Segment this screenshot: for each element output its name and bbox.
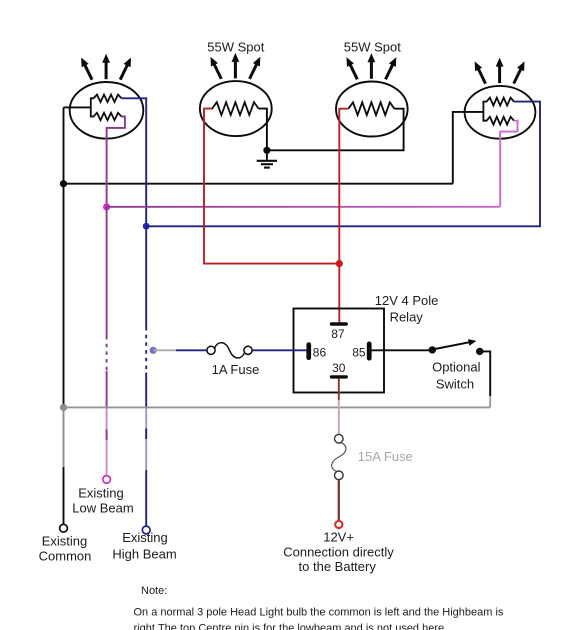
wire H2 low beam step (violet) — [500, 121, 517, 207]
svg-text:86: 86 — [313, 345, 327, 359]
svg-text:30: 30 — [332, 361, 346, 375]
svg-text:Switch: Switch — [436, 376, 474, 391]
wire existing common lower segment — [63, 467, 65, 524]
wire existing high beam dashed segment — [145, 327, 147, 373]
wire existing high beam faded segment — [145, 407, 147, 470]
svg-text:Existing: Existing — [122, 530, 168, 545]
wire tap lead gray — [153, 349, 176, 351]
lamp H1 existing headlight left (dual filament bulb) — [70, 82, 144, 139]
terminal 12V+ battery — [335, 521, 342, 528]
wire pin 30 to fuse F2 faded — [338, 400, 340, 434]
node ground junction (266.9,150.3) — [263, 147, 270, 154]
terminal existing high beam — [142, 526, 150, 534]
relay pin 30 blade — [330, 375, 348, 378]
wire existing low beam dashed segment — [106, 336, 108, 371]
wire existing high beam dash mark — [145, 429, 147, 440]
node high beam tap (153.2,350.3) — [150, 347, 157, 354]
lamp S1 55W spot left — [200, 81, 272, 136]
node red feed junction (339.3,263.6) — [336, 260, 343, 267]
node ground tap gray (63.5,407.4) — [60, 404, 67, 411]
switch SW1 left contact — [429, 346, 436, 353]
wire H1 low beam step (magenta) — [107, 117, 125, 207]
svg-text:1A Fuse: 1A Fuse — [212, 362, 260, 377]
wire tap to fuse F1 (navy) — [176, 349, 207, 351]
wire S1 right lead — [259, 109, 267, 151]
filament H2 low beam (bottom resistor) — [483, 117, 514, 125]
lamp H1 common bracket — [90, 97, 92, 117]
wire existing high beam lower segment — [145, 470, 147, 526]
svg-text:87: 87 — [331, 327, 345, 341]
filament S1 — [206, 102, 259, 115]
wire red feed to relay pin 87 — [338, 264, 340, 323]
switch SW1 right contact — [476, 348, 483, 355]
svg-text:55W Spot: 55W Spot — [207, 40, 264, 55]
wire common bus horizontal y=183.7 — [64, 183, 453, 185]
wire existing high beam solid above gray bus — [145, 373, 147, 408]
wire switch to ground bus corner — [480, 351, 491, 396]
filament H1 low beam (bottom resistor) — [91, 113, 122, 120]
svg-text:Existing: Existing — [42, 534, 88, 549]
filament H2 high beam (top resistor) — [483, 98, 514, 106]
svg-text:On a normal 3 pole Head Light: On a normal 3 pole Head Light bulb the c… — [134, 607, 504, 619]
wire H2 common lead down (x=452.8) — [453, 112, 484, 184]
svg-text:Existing: Existing — [78, 486, 124, 501]
wire H1 high beam lead (navy) — [122, 98, 147, 226]
lamp H2 common bracket — [482, 101, 484, 122]
svg-text:to the Battery: to the Battery — [299, 559, 377, 574]
svg-text:Relay: Relay — [390, 310, 424, 325]
wire existing high beam vertical solid upper — [145, 226, 147, 327]
svg-text:Optional: Optional — [432, 360, 481, 375]
wire S2 feed (red) — [339, 109, 348, 264]
light rays lamp S1 — [211, 53, 261, 79]
wire relay pin 85 to switch (black) — [372, 349, 433, 351]
terminal existing common — [60, 524, 68, 532]
fuse F2 15A (inline fuse symbol, vertical) — [332, 434, 346, 479]
svg-text:55W Spot: 55W Spot — [344, 40, 401, 55]
node low beam junction (106.6,206.9) — [103, 203, 110, 210]
wire existing low beam vertical solid upper — [106, 207, 108, 336]
svg-text:15A Fuse: 15A Fuse — [358, 449, 413, 464]
terminal existing low beam — [103, 476, 111, 484]
wire existing low beam dash mark — [106, 430, 108, 441]
wire ground return bus y=407.4 (gray) — [64, 406, 491, 408]
wire fuse F1 to relay pin 86 (navy) — [252, 349, 306, 351]
node common junction (63.5,183.7) — [60, 180, 67, 187]
svg-text:right.The top Centre pin is fo: right.The top Centre pin is for the lowb… — [134, 622, 448, 630]
lamp H2 existing headlight right (dual filament bulb) — [465, 86, 536, 139]
svg-text:High Beam: High Beam — [112, 547, 176, 562]
filament S2 — [348, 102, 394, 115]
svg-text:Low Beam: Low Beam — [72, 501, 133, 516]
light rays lamp S2 — [347, 53, 397, 79]
relay K1 body (12V 4 pole relay) — [294, 309, 385, 393]
switch SW1 lever with arrow — [433, 342, 470, 349]
wire existing low beam solid above gray bus — [106, 371, 108, 407]
wire existing common faded segment — [63, 409, 65, 467]
svg-text:85: 85 — [352, 345, 366, 359]
wire switch drop faded — [489, 396, 491, 407]
relay pin 86 blade — [306, 342, 311, 360]
wire fuse F2 to battery terminal (dark red) — [338, 480, 340, 521]
wire existing common vertical upper (x=63.5) — [63, 107, 65, 407]
svg-text:Connection directly: Connection directly — [283, 545, 394, 560]
light rays lamp H2 — [475, 58, 525, 84]
svg-text:Common: Common — [39, 549, 92, 564]
lamp S2 55W spot right — [336, 82, 408, 137]
wire existing low beam faded segment — [106, 407, 108, 475]
ground symbol — [257, 150, 277, 167]
wire ground bus to S2 — [267, 109, 404, 151]
svg-text:12V 4 Pole: 12V 4 Pole — [375, 293, 439, 308]
light rays lamp H1 — [81, 54, 131, 80]
wire high beam bus y=226.3 (navy) — [146, 102, 540, 227]
fuse F1 1A (inline fuse symbol) — [207, 343, 252, 358]
relay pin 85 blade — [367, 342, 372, 361]
filament H1 high beam (top resistor) — [91, 95, 122, 102]
svg-text:Note:: Note: — [141, 585, 167, 597]
wire S1 feed (red) — [204, 109, 339, 264]
node high beam junction (146.2,226.2) — [143, 223, 150, 230]
wire relay pin 30 down (dark red) — [338, 379, 340, 400]
svg-text:12V+: 12V+ — [323, 529, 354, 544]
wire H1 common lead left — [64, 106, 91, 108]
relay pin 87 blade — [330, 322, 348, 325]
